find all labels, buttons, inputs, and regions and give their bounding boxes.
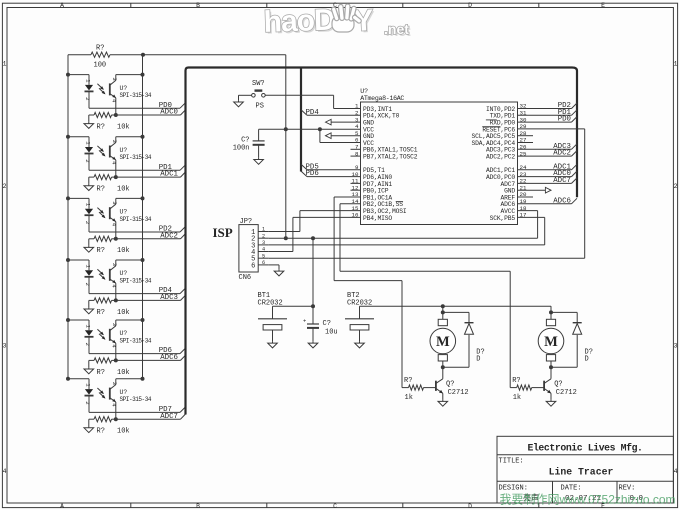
wire block 6 top [68,378,143,380]
labels R? 10k of block 5 [97,369,130,377]
svg-text:2: 2 [84,343,91,346]
wire ADC3 MCU to bus [518,144,578,150]
svg-text:SPI-315-34: SPI-315-34 [120,216,152,223]
resistor R? 10k of block 4 [89,298,116,307]
svg-text:2: 2 [84,221,91,224]
svg-text:R?: R? [97,369,105,377]
net label ADC2 [553,150,571,158]
svg-text:Line Tracer: Line Tracer [549,467,614,478]
wire flyback diode branch M1 [443,312,469,367]
node emitter junction block 2 [114,175,118,179]
svg-text:10u: 10u [325,328,338,336]
net label PD4 [306,109,320,117]
junction dot motor M2 diode branch [549,310,553,314]
wire VCC vertical x=286 [285,55,287,239]
ground at motor M1 transistor [438,400,448,407]
diode D? of motor M2 [573,323,582,335]
haoDIY.net watermark logo [263,4,411,41]
net label PD0 [558,116,571,124]
net label ADC7 [553,177,571,185]
wire flyback diode branch M2 [551,312,577,367]
title block DESIGN: label [499,484,528,492]
wire RESET MCU pin29 to ISP pin5 [269,129,585,258]
svg-text:1: 1 [85,383,92,387]
title block date value [565,495,602,503]
svg-text:SCK,PB5: SCK,PB5 [490,215,516,222]
net label ADC3 [553,143,571,151]
labels R? 10k of block 4 [97,309,130,317]
ISP title text [213,225,233,240]
resistor R? 100 (sensor LED supply) [68,45,143,70]
opto-interrupter U2 labels [120,147,152,161]
title block outline [497,436,673,503]
resistor R? 1k base of motor M1 [402,377,436,402]
phototransistor of opto U2 [110,137,118,177]
svg-text:4: 4 [110,403,117,407]
wire ADC6 from emitter to bus [116,355,186,360]
diode D? of motor M1 [465,323,474,335]
wire ADC3 from emitter to bus [116,295,186,300]
phototransistor of opto U5 [110,320,118,360]
svg-text:U?: U? [120,270,128,277]
title block TITLE: label [499,457,524,465]
wire ADC2 MCU to bus [518,151,578,157]
net label PD7 [159,406,172,414]
svg-text:PB4,MISO: PB4,MISO [363,215,392,222]
wire switch to ground [238,95,240,100]
resistor R? 10k of block 6 [89,417,116,426]
LED of opto U5 [84,320,94,354]
labels BT2 CR2032 [347,292,372,307]
svg-text:A: A [60,2,64,9]
junction dot motor M1 bottom [441,365,445,369]
net label ADC0 [553,170,571,178]
svg-text:ISP: ISP [213,225,233,240]
net label ADC6 [160,354,178,362]
wire motor M2 top feed [550,306,552,319]
svg-text:DESIGN:: DESIGN: [499,484,528,492]
svg-text:3: 3 [111,201,118,204]
wire BT2 positive to motors supply [360,305,552,307]
svg-text:Electronic Lives Mfg.: Electronic Lives Mfg. [527,442,642,453]
svg-text:TITLE:: TITLE: [499,457,524,465]
svg-text:Q?: Q? [554,380,562,388]
wire PD6 MCU pin10 to bus [301,171,361,177]
svg-text:10k: 10k [117,123,130,131]
wire PD1 MCU to bus [518,110,578,116]
svg-text:B: B [196,2,200,9]
wire ISP pin6 to ground [269,265,279,269]
net label ADC6 [553,197,571,205]
junction dot battery feed at ISP pin2 line [311,236,315,240]
wire PD4 from LED cathode to bus [89,288,186,294]
net label ADC0 [160,109,178,117]
svg-text:ADC7: ADC7 [160,413,178,421]
svg-text:3: 3 [3,342,7,349]
wire block 4 top [68,259,143,261]
svg-text:1: 1 [85,141,92,145]
node sensor block 6 top rail junctions [66,377,145,381]
wire motor M2 supply corner [550,306,552,312]
wire PD1 from LED cathode to bus [89,165,186,171]
svg-text:C2712: C2712 [448,389,469,397]
svg-text:1k: 1k [513,394,521,402]
wire VCC to MCU pins 4/6 [259,128,361,130]
net label PD1 [159,164,173,172]
wire block 1 top [68,74,143,76]
resistor R? 10k of block 5 [89,358,116,367]
switch SW? (PS) [239,80,334,110]
svg-text:4: 4 [3,468,7,475]
ground at motor M2 transistor [546,400,556,407]
junction dot motor M1 diode branch [441,310,445,314]
IC U? designator [360,88,368,95]
svg-text:3: 3 [111,140,118,143]
labels R? 10k of block 3 [97,247,130,255]
ground at C 10u [308,341,318,348]
wire ADC7 from emitter to bus [116,414,186,419]
resistor R? 1k base of motor M2 [510,377,544,402]
ground of block 2 [84,184,94,191]
node sensor block 5 top rail junctions [66,318,145,322]
svg-text:4: 4 [110,344,117,348]
svg-text:我要制作网www.0752zhizuo.com: 我要制作网www.0752zhizuo.com [500,493,676,507]
phototransistor of opto U4 [110,260,118,300]
opto-interrupter U3 labels [120,209,152,223]
net label PD6 [159,347,172,355]
svg-text:SW?: SW? [252,80,265,88]
bus branch at x=301 [300,68,302,172]
wire VCC vertical to battery junction [312,238,314,306]
ground at C 100n [254,158,264,165]
opto-interrupter U5 labels [120,330,152,344]
LED of opto U2 [84,137,94,171]
svg-text:ADC0: ADC0 [160,109,178,117]
node sensor block 2 top rail junctions [66,135,145,139]
connector CN6 value label [239,274,252,282]
svg-text:10k: 10k [117,369,130,377]
ground at BT1 [268,341,278,348]
svg-text:1: 1 [3,60,7,67]
svg-text:.net: .net [384,21,409,37]
wire block 2 top [68,136,143,138]
svg-text:U?: U? [120,330,128,337]
node sensor block 4 top rail junctions [66,258,145,262]
net label PD4 [159,287,173,295]
light arrows of opto U5 [97,329,105,340]
net label PD6 [306,170,319,178]
svg-text:2: 2 [3,183,7,190]
svg-text:4: 4 [110,223,117,227]
svg-text:R?: R? [97,186,105,194]
net label ADC7 [160,413,178,421]
junction dot motor M1 supply tap [441,304,445,308]
IC U? pin names [363,106,515,222]
title block designer name [523,493,539,503]
svg-text:ADC2: ADC2 [553,150,571,158]
node sensor block 3 top rail junctions [66,196,145,200]
svg-text:10k: 10k [117,186,130,194]
wire ADC6 MCU to bus [518,198,578,204]
svg-text:U?: U? [120,147,128,154]
net label PD1 [558,109,572,117]
svg-text:PD4: PD4 [306,109,320,117]
net label ADC1 [553,163,571,171]
svg-text:ADC7: ADC7 [553,177,571,185]
svg-text:5: 5 [262,253,265,259]
ground of block 4 [84,307,94,314]
svg-text:SPI-315-34: SPI-315-34 [120,154,152,161]
wire ADC0 from emitter to bus [116,110,186,115]
phototransistor of opto U1 [110,75,118,115]
svg-text:C: C [333,503,337,510]
svg-text:D: D [468,2,472,9]
svg-text:Q?: Q? [446,380,454,388]
net label PD5 [306,163,319,171]
wire left LED rail [67,55,69,379]
LED of opto U1 [84,75,94,109]
svg-text:CR2032: CR2032 [258,299,283,307]
bus main loop (sensor column to MCU) [186,68,578,415]
svg-text:PB7,XTAL2,TOSC2: PB7,XTAL2,TOSC2 [363,154,418,161]
svg-text:R?: R? [512,377,520,385]
svg-text:ADC2,PC2: ADC2,PC2 [486,154,515,161]
node emitter junction block 5 [114,358,118,362]
svg-text:D: D [468,503,472,510]
ground at BT2 [355,341,365,348]
svg-text:3: 3 [262,240,265,246]
svg-text:10k: 10k [117,309,130,317]
transistor Q? C2712 of motor M1 [436,379,469,400]
light arrows of opto U6 [97,388,105,399]
svg-text:3: 3 [111,77,118,80]
resistor R? 10k of block 3 [89,236,116,245]
svg-text:1: 1 [85,79,92,83]
op-amp/IC U? ATmega8-16AC box [361,102,518,225]
labels D? D of motor M2 [585,348,593,363]
svg-text:E: E [601,2,605,9]
svg-text:2: 2 [84,401,91,404]
opto-interrupter U1 labels [120,85,152,99]
wire motor M1 top feed [442,306,444,319]
green watermark text [500,493,676,507]
svg-text:U?: U? [120,85,128,92]
svg-text:U?: U? [120,209,128,216]
ground of block 5 [84,367,94,374]
labels R? 10k of block 1 [97,123,130,131]
wire MOSI MCU pin15 to ISP pin1 [269,211,361,232]
ground arrow at MCU pin21 GND [518,187,552,193]
svg-text:ADC6: ADC6 [553,197,571,205]
svg-text:4: 4 [110,99,117,103]
wire PD5 MCU pin9 to bus [301,164,361,170]
svg-text:REV:: REV: [619,484,636,492]
wire motor M2 bottom [550,361,552,379]
title block DATE: label [561,484,582,492]
wire ADC0 MCU to bus [518,171,578,177]
LED of opto U3 [84,198,94,232]
svg-text:SPI-315-34: SPI-315-34 [120,277,152,284]
IC U? pin numbers [352,103,527,219]
svg-text:2: 2 [84,159,91,162]
wire switch to MCU pin1 INT1 [334,95,361,108]
IC U? value ATmega8-16AC [360,95,404,102]
title block revision value [630,495,644,503]
wire PD7 from LED cathode to bus [89,407,186,413]
svg-text:C?: C? [323,320,331,328]
wire BT1 positive to VCC junction [273,305,314,307]
junction dot motor M2 bottom [549,365,553,369]
svg-text:B: B [196,503,200,510]
svg-text:100: 100 [94,62,107,70]
wire ADC7 MCU to bus [518,178,578,184]
svg-text:1: 1 [85,203,92,207]
junction dot at R100 right [141,53,145,57]
resistor R? 10k of block 2 [89,175,116,184]
svg-text:SPI-315-34: SPI-315-34 [120,337,152,344]
resistor R? 10k of block 1 [89,112,116,121]
ground of block 3 [84,246,94,253]
svg-text:3: 3 [111,323,118,326]
motor M1 M [430,319,456,361]
svg-text:ADC3: ADC3 [160,294,178,302]
svg-text:A: A [60,503,64,510]
svg-text:ADC6: ADC6 [160,354,178,362]
IC U? unconnected pin stubs [351,136,534,197]
svg-text:PD6: PD6 [306,170,319,178]
light arrows of opto U2 [97,146,105,157]
title block title Line Tracer [549,467,614,478]
net label PD2 [159,226,172,234]
svg-text:1: 1 [85,325,92,329]
svg-text:2: 2 [84,283,91,286]
svg-text:2: 2 [674,183,678,190]
svg-text:R?: R? [97,247,105,255]
svg-text:JP?: JP? [240,218,253,226]
wire PD0 from LED cathode to bus [89,103,186,109]
svg-text:R?: R? [96,45,104,53]
transistor Q? C2712 of motor M2 [544,379,577,400]
svg-text:ATmega8-16AC: ATmega8-16AC [360,95,404,102]
node emitter junction block 1 [114,113,118,117]
svg-text:4: 4 [262,247,265,253]
opto-interrupter U6 labels [120,389,152,403]
node emitter junction block 4 [114,298,118,302]
svg-text:ADC1: ADC1 [160,171,178,179]
ground arrow at MCU pin3 [326,119,361,125]
junction dot BT1/C10u/VCC [311,304,315,308]
svg-text:4: 4 [110,161,117,165]
LED of opto U6 [84,379,94,413]
net label PD2 [558,102,571,110]
light arrows of opto U4 [97,269,105,280]
wire PD6 from LED cathode to bus [89,348,186,354]
phototransistor of opto U6 [110,379,118,419]
capacitor C? 10u electrolytic [303,306,338,341]
wire motor M1 bottom [442,361,444,379]
wire MISO MCU pin16 to ISP pin4 [269,217,361,251]
junction dot VCC at x=320 [318,127,322,131]
svg-text:R?: R? [97,309,105,317]
svg-text:haoD: haoD [263,4,335,39]
title block REV: label [619,484,636,492]
light arrows of opto U1 [97,84,105,95]
wire ADC2 from emitter to bus [116,234,186,239]
svg-text:+: + [303,319,306,325]
svg-text:6: 6 [251,262,255,270]
ground at switch [234,100,244,107]
connector JP? designator [240,218,253,226]
node emitter junction block 6 [114,417,118,421]
wire OC1A MCU pin13 to motor1 transistor [334,197,402,388]
ground at ISP pin6 [274,269,284,276]
wire ADC1 from emitter to bus [116,172,186,177]
connector JP? ISP header box [239,225,269,272]
wire SCK MCU pin17 to ISP pin3 [269,217,545,245]
svg-text:100n: 100n [233,144,250,152]
wire VCC from R100 to vertical feed [143,54,286,56]
wire block 3 top [68,197,143,199]
labels R? 10k of block 6 [97,428,130,436]
title block company name [527,442,642,453]
svg-text:DATE:: DATE: [561,484,582,492]
phototransistor of opto U3 [110,198,118,238]
svg-text:4: 4 [110,284,117,288]
wire block 5 top [68,319,143,321]
svg-text:1: 1 [262,227,265,233]
svg-text:10k: 10k [117,247,130,255]
svg-text:SPI-315-34: SPI-315-34 [120,396,152,403]
net label ADC2 [160,232,178,240]
svg-text:10k: 10k [117,428,130,436]
battery BT2 CR2032 [345,306,374,341]
labels BT1 CR2032 [258,292,283,307]
svg-text:U?: U? [360,88,368,95]
svg-text:1: 1 [674,60,678,67]
wire PD2 MCU to bus [518,103,578,109]
svg-text:2: 2 [84,97,91,100]
labels D? D of motor M1 [476,348,484,363]
wire ADC1 MCU to bus [518,164,578,170]
wire VCC drop to MCU pin6 [320,129,361,142]
svg-text:C2712: C2712 [556,389,577,397]
svg-text:PS: PS [256,103,264,111]
svg-text:3: 3 [111,263,118,266]
junction dot VCC vertical joins ISP pin2 [284,236,288,240]
labels R? 10k of block 2 [97,186,130,194]
ground of block 1 [84,122,94,129]
motor M2 M [538,319,564,361]
svg-text:R?: R? [404,377,412,385]
junction dot VCC at x=286 [284,127,288,131]
svg-text:SPI-315-34: SPI-315-34 [120,92,152,99]
wire PD2 from LED cathode to bus [89,227,186,233]
wire right collector rail [142,55,144,379]
node sensor block 1 top rail junctions [66,73,145,77]
wire PD4 MCU pin2 to bus [301,110,361,116]
light arrows of opto U3 [97,208,105,219]
opto-interrupter U4 labels [120,270,152,284]
svg-text:D: D [585,356,589,364]
svg-text:CN6: CN6 [239,274,252,282]
svg-text:6: 6 [262,260,265,266]
svg-text:M: M [436,334,450,350]
svg-text:1: 1 [85,265,92,269]
svg-text:M: M [544,334,558,350]
battery BT1 CR2032 [258,306,287,341]
svg-text:2: 2 [262,233,265,239]
ground of block 6 [84,426,94,433]
